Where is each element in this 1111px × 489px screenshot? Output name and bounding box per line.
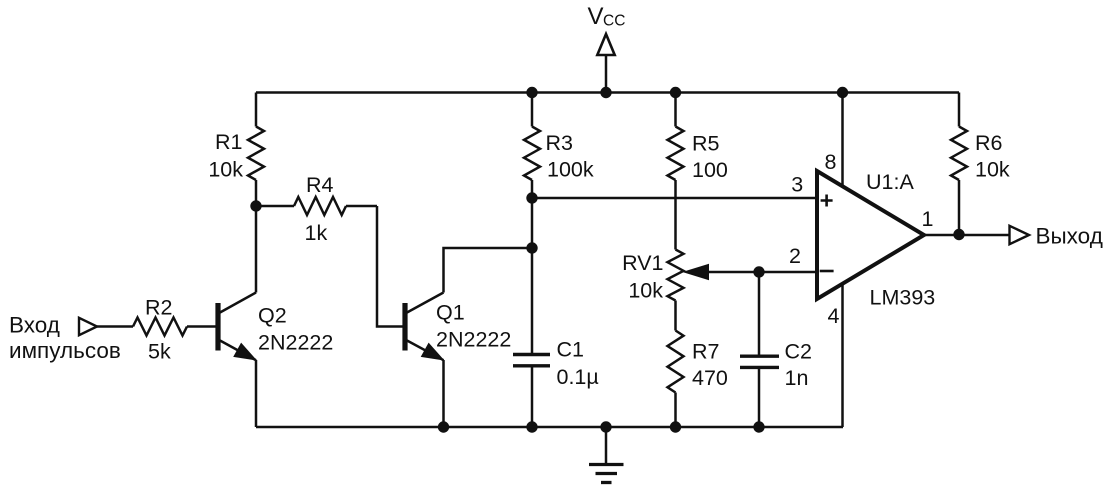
svg-text:100: 100: [692, 158, 728, 182]
node: R3 bottom / pin3 net: [526, 192, 537, 203]
svg-text:CC: CC: [603, 13, 625, 30]
svg-text:Выход: Выход: [1036, 224, 1103, 249]
potentiometer RV1 10k: [622, 250, 817, 303]
wire: pin 3 net to op-amp: [532, 197, 817, 200]
node: Vcc rail junction: [600, 87, 611, 98]
wire: R4 to Q1 base: [377, 206, 403, 327]
resistor R3 100k: [524, 93, 594, 199]
input port: Вход импульсов: [9, 313, 133, 364]
svg-text:3: 3: [791, 173, 803, 197]
wire: RV1 bottom to R7: [674, 301, 677, 331]
svg-text:V: V: [588, 3, 604, 30]
node: C1 on bottom rail: [526, 421, 537, 432]
node: output junction: [953, 229, 964, 240]
svg-text:Q2: Q2: [258, 304, 287, 328]
capacitor C2 1n: [740, 272, 812, 427]
capacitor C1 0.1u: [513, 248, 599, 427]
svg-text:Вход: Вход: [9, 313, 60, 338]
wire: Q1 collector up to node B: [444, 248, 533, 293]
svg-text:R3: R3: [546, 131, 574, 155]
svg-text:U1:A: U1:A: [866, 170, 914, 194]
svg-text:8: 8: [825, 150, 837, 174]
resistor R1 10k: [208, 93, 264, 207]
node: R7 on bottom rail: [670, 421, 681, 432]
svg-text:R1: R1: [215, 130, 242, 154]
resistor R7 470: [668, 331, 728, 428]
svg-text:R6: R6: [975, 131, 1003, 155]
node B: C1/Q1 collector junction: [526, 242, 537, 253]
wire: Q2 emitter to bottom rail: [255, 360, 258, 427]
svg-text:100k: 100k: [547, 158, 594, 182]
svg-text:5k: 5k: [148, 340, 171, 364]
op-amp U1:A body: [817, 171, 924, 299]
svg-text:10k: 10k: [628, 279, 663, 303]
svg-text:2N2222: 2N2222: [258, 331, 333, 355]
wire: pin 8: [841, 93, 844, 188]
svg-text:LM393: LM393: [870, 286, 936, 310]
svg-text:1: 1: [922, 207, 934, 231]
wire: top Vcc rail: [256, 91, 959, 94]
svg-text:470: 470: [692, 366, 728, 390]
wire: op-amp output: [924, 234, 1009, 237]
wire: node down to node B: [531, 198, 534, 248]
node: ground junction on rail: [600, 421, 611, 432]
wire: bottom ground rail: [256, 426, 843, 429]
transistor Q2 2N2222: [218, 293, 333, 361]
svg-text:2N2222: 2N2222: [436, 328, 511, 352]
svg-text:0.1µ: 0.1µ: [557, 365, 599, 389]
node: Q1 emitter on bottom rail: [438, 421, 449, 432]
ground symbol: [589, 427, 624, 483]
resistor R2 5k: [133, 296, 216, 364]
svg-text:4: 4: [828, 304, 840, 328]
resistor R4 1k: [256, 173, 377, 245]
wire: node A down to Q2 collector: [255, 206, 258, 293]
wire: Q1 emitter to bottom rail: [442, 360, 445, 427]
node: C2 on bottom rail: [753, 421, 764, 432]
svg-text:1k: 1k: [305, 221, 328, 245]
wire: pin 4 to bottom rail: [841, 284, 844, 427]
resistor R6 10k: [951, 93, 1010, 235]
svg-text:C1: C1: [557, 338, 584, 362]
svg-text:R4: R4: [306, 173, 334, 197]
svg-text:импульсов: импульсов: [9, 338, 121, 363]
svg-text:2: 2: [789, 244, 801, 268]
node A: R1/R4/Q2 collector junction: [250, 200, 261, 211]
svg-text:10k: 10k: [975, 158, 1010, 182]
output port: Выход: [1010, 224, 1103, 249]
node: R5 top on rail: [670, 87, 681, 98]
node: C2/pin2 junction: [753, 266, 764, 277]
svg-text:Q1: Q1: [436, 301, 465, 325]
svg-text:1n: 1n: [785, 366, 809, 390]
node: R3 top on rail: [526, 87, 537, 98]
svg-text:R5: R5: [692, 132, 720, 156]
node: pin 8 on rail: [837, 87, 848, 98]
Vcc supply symbol: [588, 3, 626, 93]
svg-text:R7: R7: [692, 340, 719, 364]
svg-text:10k: 10k: [208, 158, 243, 182]
resistor R5 100: [668, 93, 728, 250]
svg-text:C2: C2: [785, 340, 812, 364]
svg-text:RV1: RV1: [622, 251, 663, 275]
transistor Q1 2N2222: [405, 293, 511, 361]
svg-text:R2: R2: [145, 296, 172, 320]
